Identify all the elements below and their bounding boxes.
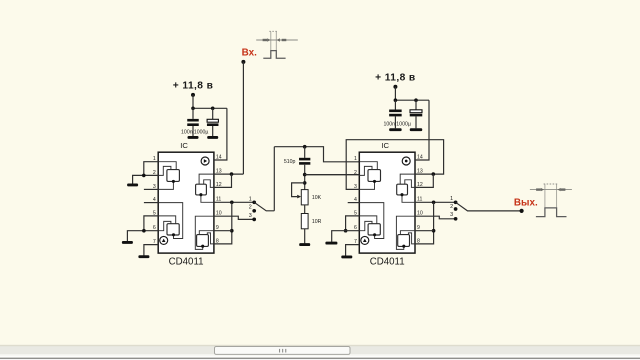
switch SA2 wiper to output xyxy=(456,202,521,211)
gate D input wires (pins 9,8) xyxy=(400,231,415,235)
gate A output to pin 3 xyxy=(158,181,173,190)
wire: right supply vertical xyxy=(394,87,396,101)
svg-text:10K: 10K xyxy=(312,195,322,201)
resistor R2 10R xyxy=(301,214,308,229)
wire: right IC pin 4 stub xyxy=(348,202,360,204)
ground symbol circle (pin 7 side) xyxy=(361,236,369,244)
window bottom edge xyxy=(0,356,640,358)
junction pins 5-6 xyxy=(142,229,146,233)
gate A output to pin 3 xyxy=(359,181,374,190)
gate C input wires (pins 5,6) xyxy=(158,216,176,224)
potentiometer R1 10K body xyxy=(301,190,308,205)
svg-text:3: 3 xyxy=(249,213,252,219)
wire: timing rail to right IC pin 1 xyxy=(274,147,359,162)
junction right pin 11 xyxy=(432,201,436,205)
wire: right IC pin 11 to switch contact 1 xyxy=(415,201,456,203)
icon: output pulse waveform xyxy=(530,184,572,217)
junction wiper tap xyxy=(303,181,307,185)
junction pins 1-2 xyxy=(142,174,146,178)
junction right pin 9 xyxy=(432,229,436,233)
wire: left supply vertical xyxy=(192,95,194,108)
gate A (NAND 1) xyxy=(167,170,180,182)
node: left supply terminal xyxy=(191,93,195,97)
ground for pins 1,2 xyxy=(127,183,138,186)
junction at 510p top xyxy=(303,145,307,149)
wire: right IC pin 10 to switch contact 3 xyxy=(415,216,456,219)
junction pin 13 xyxy=(230,172,234,176)
IC body (left CD4011) xyxy=(158,152,214,253)
switch SA1 contact 3 xyxy=(252,218,256,222)
wire: right IC pin 6 to ground xyxy=(332,231,360,242)
ground for right pins 5,6 xyxy=(325,242,337,245)
gate B input wires (pins 13,12) xyxy=(199,174,214,184)
junction at right 100n top xyxy=(394,98,398,102)
gate D input wires (pins 9,8) xyxy=(199,231,214,235)
gate D output to pin 10 xyxy=(396,216,415,249)
wire: 510p bottom to right IC pin 2 xyxy=(305,174,360,176)
power symbol (pin 14 side) xyxy=(201,157,209,165)
ground under C2 xyxy=(207,136,218,139)
switch SA2 contact 3 xyxy=(454,217,458,221)
svg-text:1000µ: 1000µ xyxy=(194,129,209,135)
gate C output to pin 4 xyxy=(158,203,183,239)
junction at left 1000u top xyxy=(211,107,215,111)
ground symbol circle (pin 7 side) xyxy=(160,236,168,244)
switch SA1 contact 2 xyxy=(252,209,256,213)
svg-text:100n: 100n xyxy=(181,129,193,135)
gate D output to pin 10 xyxy=(195,216,214,249)
node: input terminal xyxy=(241,60,245,64)
svg-text:IC: IC xyxy=(180,141,188,150)
svg-text:+ 11,8 в: + 11,8 в xyxy=(375,72,416,83)
gate B (NAND 2) xyxy=(196,184,207,195)
node: right supply terminal xyxy=(393,85,397,89)
junction right pins 5-6 xyxy=(344,229,348,233)
svg-text:3: 3 xyxy=(450,212,453,218)
gate D (NAND 4) xyxy=(197,235,209,247)
wire: right pins 13-12 tie xyxy=(415,174,433,187)
wire: left IC pin 6 to ground xyxy=(127,231,158,242)
ground under C5 xyxy=(410,128,423,131)
scrollbar thumb grip xyxy=(279,349,280,353)
gate C input wires (pins 5,6) xyxy=(359,216,377,224)
gate D (NAND 4) xyxy=(398,235,410,247)
capacitor C4 100n (right) xyxy=(394,100,396,109)
gate C (NAND 3) xyxy=(368,224,380,235)
gate A input wires (pins 1,2) xyxy=(359,162,377,170)
wire: left IC pin 10 to switch contact 3 xyxy=(214,216,254,219)
svg-text:510p: 510p xyxy=(284,159,296,165)
svg-text:1: 1 xyxy=(249,196,252,202)
wire: left IC pin 9 xyxy=(214,230,232,232)
junction at left 100n top xyxy=(191,107,195,111)
wire: left IC pin 1 xyxy=(144,162,158,176)
scrollbar thumb xyxy=(215,347,351,355)
node: output terminal xyxy=(520,209,524,213)
wire: right supply rail xyxy=(395,99,429,101)
ground under 10R xyxy=(299,243,310,246)
ground under C1 xyxy=(188,136,199,139)
ground under C4 xyxy=(389,128,402,131)
wire: right IC pin 2 stub handled by 510p line xyxy=(305,174,360,176)
svg-text:CD4011: CD4011 xyxy=(370,256,405,267)
svg-text:1: 1 xyxy=(354,156,357,162)
switch SA2 contact 2 xyxy=(454,207,458,211)
switch SA1 contact 1 xyxy=(252,200,256,204)
gate C output to pin 4 xyxy=(359,203,384,239)
wire: right IC pin 5 xyxy=(346,216,360,231)
wire: left IC pin 4 stub xyxy=(144,202,158,204)
junction pin 2 line xyxy=(303,173,307,177)
svg-text:1: 1 xyxy=(450,196,453,202)
wire: left IC pin 5 xyxy=(144,216,158,231)
wire: pins 11-9-8 tie xyxy=(214,202,232,244)
wire: left IC pin 14 to supply rail xyxy=(214,108,227,160)
IC body (right CD4011) xyxy=(359,152,415,253)
capacitor C1 100n (left) xyxy=(192,108,194,119)
gate B output to pin 11 xyxy=(402,194,415,202)
svg-text:2: 2 xyxy=(249,205,252,211)
wire: right IC pin 9 xyxy=(415,230,434,232)
wire: right pins 11-9-8 tie xyxy=(415,202,434,244)
potentiometer R1 10K wiper arm xyxy=(292,183,305,197)
capacitor C3 510p xyxy=(304,147,306,158)
junction pin 11 xyxy=(230,201,234,205)
svg-text:+ 11,8 в: + 11,8 в xyxy=(173,80,214,91)
svg-text:100n: 100n xyxy=(383,121,395,127)
gate B input wires (pins 13,12) xyxy=(400,174,415,184)
svg-text:Вх.: Вх. xyxy=(242,48,257,59)
svg-text:1000µ: 1000µ xyxy=(396,121,411,127)
gate B (NAND 2) xyxy=(397,184,408,195)
junction pin 9 xyxy=(230,229,234,233)
wire: pins 13-12 tie xyxy=(214,174,232,187)
wire: pot to resistor xyxy=(304,205,306,214)
switch SA1 wiper xyxy=(254,202,274,211)
wire: input vertical down to pin 13 xyxy=(242,62,244,174)
wire: left supply rail xyxy=(193,107,227,109)
junction right pin 13 xyxy=(432,172,436,176)
wire: left IC pin 3 stub xyxy=(144,188,158,190)
wire: right IC pin 14 to supply rail xyxy=(415,100,429,160)
wire: resistor to ground xyxy=(304,229,306,244)
svg-text:2: 2 xyxy=(450,204,453,210)
switch SA2 contact 1 xyxy=(454,200,458,204)
wire: left IC pin 2 to ground xyxy=(133,175,159,183)
capacitor C5 1000u electrolytic (right) xyxy=(415,100,417,110)
svg-text:IC: IC xyxy=(381,141,389,150)
svg-text:10R: 10R xyxy=(312,219,322,225)
junction at right 1000u top xyxy=(414,98,418,102)
ground for right pin 7 xyxy=(341,255,352,258)
ground for pin 7 xyxy=(138,255,149,258)
wire: outer loop pin 3 to pins 13,12 xyxy=(346,140,443,190)
power symbol (pin 14 side) xyxy=(402,157,410,165)
gate B output to pin 11 xyxy=(201,194,214,202)
ground for pins 5,6 xyxy=(122,241,133,244)
svg-text:CD4011: CD4011 xyxy=(169,256,204,267)
wire: left IC pin 13 to input line xyxy=(214,173,244,175)
svg-text:Вых.: Вых. xyxy=(514,197,538,208)
wire: left IC pin 7 to ground xyxy=(144,245,158,256)
gate C (NAND 3) xyxy=(167,224,179,235)
scrollbar track xyxy=(0,344,640,345)
gate A (NAND 1) xyxy=(368,170,381,182)
icon: input pulse waveform xyxy=(256,31,298,58)
wire: wiper up to timing rail xyxy=(273,147,275,211)
wire: right IC pin 7 to ground xyxy=(346,245,360,256)
gate A input wires (pins 1,2) xyxy=(158,162,176,170)
wire: left IC pin 11 to switch contact 1 xyxy=(214,201,254,203)
capacitor C2 1000u electrolytic (left) xyxy=(212,108,214,119)
